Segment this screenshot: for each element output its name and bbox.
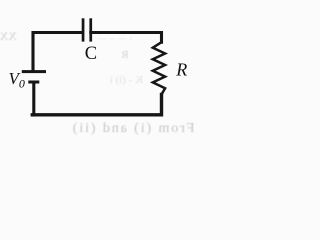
svg-text:XX: XX bbox=[0, 29, 17, 43]
svg-text:R: R bbox=[121, 49, 129, 61]
svg-text:K - (i) i: K - (i) i bbox=[110, 74, 143, 86]
svg-text:C: C bbox=[85, 44, 97, 64]
svg-text:- — -- —: - — -- — bbox=[97, 33, 132, 43]
svg-text:From (i) and (ii): From (i) and (ii) bbox=[71, 121, 194, 136]
svg-text:R: R bbox=[175, 60, 187, 80]
